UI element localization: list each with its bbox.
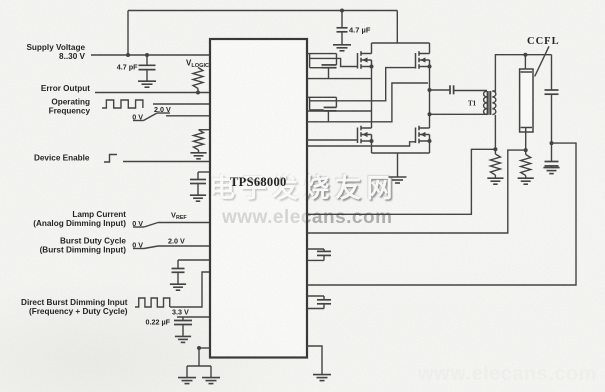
- junction: Q3 source: [370, 139, 374, 143]
- wire: bridge top rail: [372, 43, 430, 54]
- wire: CCFL bottom lead: [525, 128, 527, 151]
- wire: gate drive to Q1: [310, 58, 358, 66]
- wire: node B to series capacitor: [430, 89, 451, 91]
- wire: chip ground pin bottom right: [307, 346, 322, 374]
- wire: lamp current line to pin: [158, 222, 210, 224]
- transistor Q2 high-side right: [416, 51, 430, 69]
- ground: below C2: [138, 81, 156, 87]
- resistor R3 secondary sense to ground: [490, 149, 500, 177]
- wire: bootstrap pin B upper line: [307, 96, 336, 98]
- wire: SW-A sense pin line to node A: [307, 110, 372, 112]
- wire: switch node B vertical: [429, 67, 431, 129]
- capacitor C1 4.7uF at top: [337, 11, 348, 45]
- junction: supply / C2 tap: [145, 53, 149, 57]
- wire: series cap to transformer primary top: [454, 90, 487, 92]
- label: Lamp Current (Analog Dimming Input): [33, 210, 126, 228]
- junction: ballast corner: [550, 141, 554, 145]
- transistor Q3 low-side left: [358, 126, 372, 144]
- junction: node B to primary bottom: [428, 112, 432, 116]
- waveform glyph: direct burst square wave: [135, 298, 170, 307]
- ground: below C3: [190, 195, 206, 201]
- waveform glyph: operating frequency square wave: [102, 100, 143, 108]
- wire: bootstrap pin A upper line: [307, 53, 337, 55]
- wire: feedback loop right side: [307, 143, 576, 285]
- ground: below C5: [175, 336, 191, 342]
- ramp glyph 0V to VREF on lamp current pin: [132, 219, 158, 228]
- capacitor C6 bootstrap A: [310, 54, 337, 68]
- capacitor C5 0.22uF to ground: [174, 317, 192, 336]
- ground: below C1: [333, 45, 351, 51]
- label: Operating Frequency: [49, 98, 91, 116]
- capacitor C11 on right chip pins upper: [307, 249, 331, 260]
- wire: CCFL top lead: [524, 55, 526, 72]
- junction: lamp current sense node: [524, 148, 528, 152]
- wire: switch node A vertical: [371, 67, 373, 129]
- resistor R2 on RT pin to ground: [194, 130, 211, 153]
- label: Direct Burst Dimming Input (Frequency + Duty Cycle): [21, 298, 128, 316]
- wire: node B to transformer primary bottom: [430, 113, 488, 115]
- transformer T1: [484, 91, 496, 115]
- ground: bottom right: [313, 375, 331, 381]
- op chip U1 TPS68000 body: [210, 39, 307, 358]
- wire: gate drive to Q3: [307, 139, 358, 141]
- ground: bridge source ground: [389, 177, 407, 183]
- ground: below C4: [170, 284, 186, 290]
- ground: bottom left B: [202, 378, 220, 384]
- capacitor C3 on soft-start pin to ground: [190, 172, 210, 195]
- wire: lamp sense feedback to chip: [307, 150, 526, 233]
- wire: 3.3V line to pin: [177, 316, 210, 318]
- wire: direct burst input routing to pin: [170, 272, 210, 307]
- wire: enable line to pin: [123, 161, 210, 163]
- resistor R4 lamp current sense to ground: [521, 150, 531, 178]
- junction: secondary sense node: [493, 147, 497, 151]
- wire: ballast capacitor branch from CCFL top: [551, 55, 553, 90]
- junction: Q1 source node A: [370, 65, 374, 69]
- junction: R1 / error output line: [196, 91, 200, 95]
- junction: Q4 source: [428, 139, 432, 143]
- lamp CCFL tube: [520, 69, 533, 132]
- label: Supply Voltage 8..30 V: [26, 43, 85, 61]
- wire: error output line: [95, 92, 210, 94]
- wire: transformer secondary bottom: [494, 115, 496, 149]
- ramp glyph 0V to 2.0V for frequency pin: [132, 113, 170, 122]
- junction: top rail / C1 tap: [340, 9, 344, 13]
- junction: node B to series capacitor: [428, 88, 432, 92]
- ground: below R3: [487, 178, 503, 184]
- wire: frequency pin lower line: [166, 115, 210, 117]
- wire: secondary top to CCFL top: [492, 55, 551, 91]
- junction: bottom left ground node: [197, 346, 201, 350]
- wire: top supply rail over the chip: [128, 11, 397, 56]
- junction: Q2 source node B: [428, 65, 432, 69]
- wire: burst duty line to pin: [158, 245, 210, 247]
- wire: chip ground pin bottom left: [187, 348, 211, 377]
- capacitor C8 series DC block: [450, 85, 454, 94]
- transistor Q1 high-side left: [358, 51, 372, 69]
- capacitor C10 to ground below ballast corner: [545, 143, 559, 167]
- capacitor C12 on right chip pins lower: [307, 296, 331, 309]
- capacitor C7 bootstrap B: [310, 97, 337, 111]
- label: Burst Duty Cycle (Burst Dimming Input): [40, 237, 127, 255]
- wire: switch node A pin line: [307, 68, 372, 79]
- wire: secondary sense feedback to chip: [307, 149, 495, 214]
- ground: below R4: [518, 178, 534, 184]
- capacitor C4 on burst pin to ground: [172, 260, 211, 284]
- wire: bootstrap B bottom to SW line: [327, 111, 329, 122]
- ramp glyph 0V to 2.0V on burst duty pin: [132, 241, 158, 250]
- wire: frequency pin upper line: [153, 103, 210, 105]
- wire: supply input line to pin: [91, 54, 210, 56]
- ground: below R2: [190, 153, 206, 159]
- resistor R1 pull-up from VLOGIC to error output: [193, 68, 203, 89]
- ground: bottom left A: [178, 378, 196, 384]
- step glyph: enable rising edge: [104, 155, 117, 163]
- wire: gate drive to Q2: [310, 68, 416, 101]
- wire: gate drive to Q4: [307, 142, 416, 146]
- transistor Q4 low-side right: [416, 126, 430, 144]
- junction: CCFL top lead: [523, 53, 527, 57]
- callout line from CCFL label to tube: [535, 46, 549, 76]
- ground: below C10: [543, 168, 559, 174]
- wire: switch node B pin routing: [307, 83, 428, 122]
- junction: supply / top rail riser: [126, 53, 130, 57]
- capacitor C9 ballast: [545, 90, 559, 94]
- capacitor C2 4.7pF on supply: [139, 55, 156, 81]
- wire: ballast cap down to corner: [551, 94, 553, 143]
- wire: bridge bottom rail to ground: [372, 141, 430, 177]
